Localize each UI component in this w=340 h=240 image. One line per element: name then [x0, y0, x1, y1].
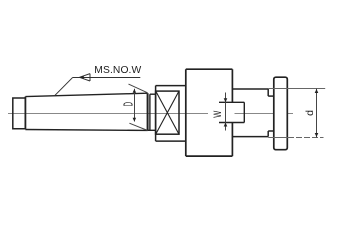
- svg-text:W: W: [210, 111, 223, 118]
- svg-text:MS.NO.W: MS.NO.W: [94, 65, 141, 76]
- svg-text:d: d: [304, 110, 316, 116]
- svg-text:D: D: [122, 102, 136, 106]
